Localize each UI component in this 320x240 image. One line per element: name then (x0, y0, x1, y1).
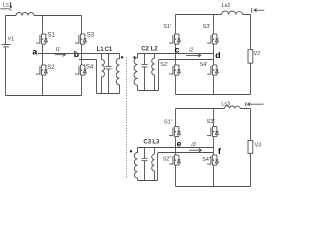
wire tank2 top rail / node c to d (138, 53, 214, 55)
wire leg a upper (42, 16, 44, 32)
svg-text:V3: V3 (255, 143, 262, 149)
svg-text:S3: S3 (87, 33, 95, 39)
polarity dot winding 3 (130, 150, 132, 152)
arrow current port2 (254, 9, 264, 12)
wire node b to S4 (81, 60, 83, 63)
source V1 (1, 45, 10, 47)
wire S4p source to bottom rail (213, 77, 215, 95)
wire node c to S2p (175, 54, 177, 63)
svg-text:b: b (74, 49, 79, 59)
transistor S2pp (169, 153, 180, 167)
wire tank3 bottom to node f (158, 153, 214, 181)
svg-text:f: f (218, 146, 221, 156)
wire V3 right vertical (250, 109, 252, 187)
svg-text:L1: L1 (97, 47, 105, 53)
wire leg e upper (175, 109, 177, 125)
curve mark port3 (245, 102, 248, 106)
transistor S3pp (207, 124, 218, 138)
inductor L2 (152, 54, 155, 91)
svg-text:V2: V2 (254, 51, 261, 57)
wire bottom rail port3 (176, 186, 251, 188)
wire top rail port3 (176, 108, 251, 110)
wire S1 source to node a (42, 46, 44, 54)
capacitor C3 (142, 148, 148, 181)
wire bottom rail port1 (6, 95, 82, 97)
polarity dot winding 2 (133, 56, 135, 58)
transformer winding 2 (134, 54, 137, 91)
svg-text:i3: i3 (191, 142, 195, 148)
svg-text:I1: I1 (56, 47, 61, 53)
wire tank3 bottom rail (138, 180, 158, 182)
wire node d to S4p (213, 60, 215, 63)
wire top rail port1 (6, 15, 82, 17)
transformer winding 3 (134, 148, 137, 181)
svg-text:S4": S4" (202, 157, 211, 163)
inductor Ls1 (16, 13, 34, 16)
transistor S2 (36, 63, 47, 77)
svg-text:S2': S2' (160, 62, 168, 68)
arrow I1 (55, 53, 65, 56)
arrow down at Ls1 (10, 2, 12, 8)
wire node f to S4pp (213, 152, 215, 154)
wire V2 right vertical (250, 15, 252, 95)
wire S1p source to node c (175, 46, 177, 54)
svg-text:e: e (177, 138, 182, 148)
inductor L3 (152, 148, 155, 181)
svg-text:C3: C3 (143, 140, 151, 146)
svg-text:S4: S4 (86, 65, 94, 71)
capacitor C1 (106, 54, 112, 94)
wire node b to tank1 bottom (79, 60, 97, 94)
polarity dot winding 1 (121, 56, 123, 58)
arrow line under Ls1 label (0, 9, 11, 11)
wire top rail port2 (176, 14, 251, 16)
svg-text:C2: C2 (141, 46, 149, 52)
wire tank3 top rail / node e to f (138, 147, 214, 149)
transistor S4p (207, 63, 218, 77)
svg-text:S2": S2" (163, 157, 172, 163)
svg-text:i2: i2 (189, 47, 193, 53)
wire tank1 bottom rail (97, 93, 120, 95)
wire S2 source to bottom rail (42, 77, 44, 96)
wire leg b upper (81, 16, 83, 32)
transistor S4pp (207, 153, 218, 167)
svg-text:L2: L2 (151, 46, 159, 52)
transistor S1p (169, 32, 180, 46)
svg-text:S3": S3" (207, 119, 216, 125)
svg-text:S4': S4' (200, 62, 208, 68)
wire bottom rail port2 (176, 94, 251, 96)
svg-text:V1: V1 (8, 37, 15, 43)
svg-text:Ls3: Ls3 (221, 102, 230, 108)
wire node a to S2 (42, 54, 44, 63)
svg-text:S1': S1' (163, 24, 171, 30)
inductor Ls3 (225, 106, 241, 109)
svg-text:a: a (32, 47, 37, 57)
transistor S4 (75, 63, 86, 77)
wire S2p source to bottom rail (175, 77, 177, 95)
wire leg d upper (213, 15, 215, 32)
wire S3pp source to node f (213, 138, 215, 152)
curve mark port2 (251, 8, 252, 12)
transistor S1pp (169, 124, 180, 138)
wire tank2 bottom rail (138, 90, 159, 92)
wire tank2 bottom to node d (159, 60, 214, 91)
wire node a to tank1 top (38, 53, 120, 55)
inductor Ls2 (222, 11, 243, 15)
wire S4pp source to bottom rail (213, 167, 215, 187)
load V2 (248, 50, 253, 63)
load V3 (248, 141, 253, 154)
svg-text:L3: L3 (152, 140, 160, 146)
svg-text:d: d (215, 50, 220, 60)
arrow current port3 (248, 103, 264, 106)
svg-text:S1": S1" (164, 120, 173, 126)
wire S1pp source to node e (175, 138, 177, 147)
svg-text:S2: S2 (47, 65, 55, 71)
wire S3p source to node d (213, 46, 215, 60)
transformer core dotted line (126, 58, 128, 178)
svg-text:S3': S3' (203, 24, 211, 30)
wire leg c upper (175, 15, 177, 32)
transistor S3 (75, 32, 86, 46)
wire S4 source to bottom rail (81, 77, 83, 96)
arrow i3 (189, 149, 202, 152)
transistor S1 (36, 32, 47, 46)
transistor S3p (207, 32, 218, 46)
wire S2pp source to bottom rail (175, 167, 177, 187)
svg-text:S1: S1 (48, 33, 56, 39)
transistor S2p (169, 63, 180, 77)
svg-text:Ls2: Ls2 (222, 3, 231, 9)
transformer winding 1 (116, 54, 119, 94)
capacitor C2 (142, 54, 148, 91)
wire node e to S2pp (175, 148, 177, 153)
svg-text:C1: C1 (105, 47, 113, 53)
inductor L1 (102, 54, 105, 94)
wire left vertical V1 (5, 16, 7, 96)
wire leg f upper (213, 109, 215, 125)
arrow i2 (186, 54, 201, 57)
svg-text:c: c (175, 45, 180, 55)
wire S3 source to node b (81, 46, 83, 60)
